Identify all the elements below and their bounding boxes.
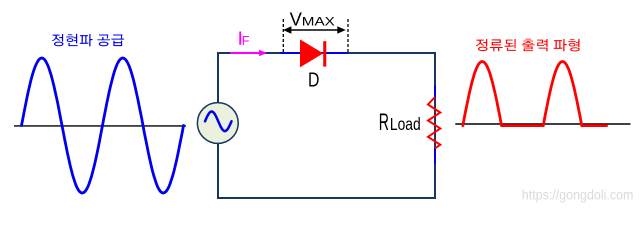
svg-text:R: R [379,109,389,136]
svg-text:V: V [290,9,303,30]
svg-text:Load: Load [390,114,421,134]
svg-text:https://gongdoli.com: https://gongdoli.com [522,187,634,203]
svg-text:MAX: MAX [302,15,335,29]
svg-text:D: D [308,70,319,92]
svg-text:F: F [242,34,250,48]
